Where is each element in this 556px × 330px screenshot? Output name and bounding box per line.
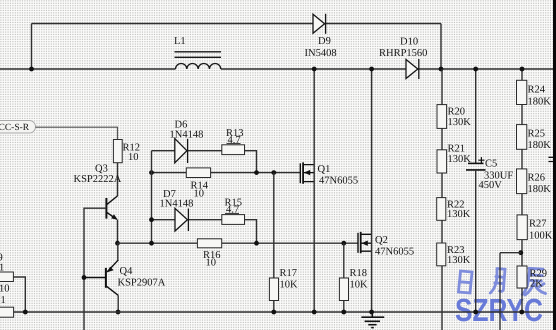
mosfet Q2 47N6055 [358,232,372,253]
svg-text:180K: 180K [528,184,552,195]
svg-text:1N4148: 1N4148 [170,130,204,141]
resistor R27 100K [517,215,527,240]
svg-text:10: 10 [206,258,217,269]
capacitor C5 330UF 450V [475,69,477,163]
wire: Q2 drain/source vertical x=371.6 [371,69,373,312]
node: junction (256.5,243.2) [254,241,259,246]
diode D9 IN5408 [313,14,326,34]
svg-text:CC-S-R: CC-S-R [0,123,30,133]
wire: Q3 base wire and left drop x=84 [84,208,106,330]
wire: pill to R12 [36,127,118,139]
wire: main horizontal rail y=69 [0,68,556,70]
node: junction (314.2,69) [312,67,317,72]
resistor R12 10 [113,140,122,163]
node: junction (522,312) [519,310,524,315]
svg-text:R24: R24 [528,85,546,96]
svg-text:1: 1 [1,295,6,306]
svg-text:10K: 10K [280,280,299,291]
svg-text:Q1: Q1 [318,164,331,175]
transistor Q4 KSP2907A [84,243,118,312]
wire: Q3 emitter down to node [117,220,119,244]
node: junction (256.5,172.6) [254,170,259,175]
diode D7 1N4148 [175,208,188,231]
svg-text:Q3: Q3 [95,164,108,175]
resistor R20 130K [437,105,447,129]
wire: D7/R15 branch y=219.7 [152,220,257,244]
svg-text:47N6055: 47N6055 [375,247,414,258]
resistor chain R24-R27,R29 x=522 [521,69,523,312]
svg-text:C5: C5 [485,159,497,170]
svg-text:KSP2222A: KSP2222A [74,174,122,185]
svg-text:D10: D10 [400,37,418,48]
resistor R13 4.7 [222,145,245,155]
resistor R22 130K [437,198,446,221]
wire: Q1 drain/source vertical x=314.2 [313,69,315,312]
svg-text:SZRYC: SZRYC [455,292,543,328]
wire: bottom rail y=312 [14,311,556,313]
svg-text:130K: 130K [447,255,471,266]
black border strip right edge [553,0,556,330]
wire: R12 to Q3 collector [117,163,119,197]
svg-text:IN5408: IN5408 [305,48,337,59]
svg-text:R20: R20 [448,107,466,118]
resistor R14 10 [186,168,210,178]
node: junction (475.7,69) [473,67,478,72]
node: junction (371.6,69) [369,67,374,72]
svg-text:10K: 10K [350,280,369,291]
terminal pill CC-S-R [0,121,36,134]
node: junction (84,277.5) [82,275,87,280]
node: junction (441,69) [439,67,444,72]
resistor R10 0.1 (left edge) [0,307,14,317]
wire: D6/R13 top branch y=150.7 [152,151,257,173]
svg-text:4.7: 4.7 [228,135,241,146]
wire: R16 / Q2 gate branch y=243.2 [118,242,359,244]
svg-text:D9: D9 [318,36,331,47]
wire: gate branch y=172.6 (R14 row) [152,172,301,174]
svg-text:10: 10 [194,189,205,200]
resistor R17 10K [273,173,275,278]
node: junction (117.5,243.2) [115,241,120,246]
node: junction (151.5,172.6) [149,170,154,175]
svg-text:4.7: 4.7 [226,205,239,216]
svg-text:RHRP1560: RHRP1560 [379,48,427,59]
svg-text:450V: 450V [479,180,503,191]
svg-text:Q2: Q2 [375,235,388,246]
svg-text:R26: R26 [528,173,546,184]
node: junction (314.2,312) [312,310,317,315]
svg-text:1N4148: 1N4148 [160,199,194,210]
node: junction (151.5,243.2) [149,241,154,246]
svg-text:2K: 2K [530,279,543,290]
node: junction (31.5,69) [29,67,34,72]
svg-text:10: 10 [0,284,10,295]
resistor R25 180K [517,125,527,150]
svg-text:R17: R17 [280,268,298,279]
svg-text:R21: R21 [448,144,466,155]
wire: left riser x=31.5 [31,24,33,70]
node: junction (371.6,312) [369,310,374,315]
wire: left vertical x=151.5 [151,151,153,244]
watermark 日月辰 SZRYC [455,268,546,328]
svg-text:180K: 180K [528,140,552,151]
node: junction (151.5,219.7) [149,217,154,222]
resistor R16 10 [197,239,221,248]
resistor R21 130K [437,150,447,173]
node: junction (343.8,312) [341,310,346,315]
svg-text:180K: 180K [528,97,552,108]
svg-text:47N6055: 47N6055 [319,176,358,187]
wire: stub to x=500 output [500,253,521,330]
mosfet Q1 47N6055 [300,162,314,183]
wire: top rail y=23.5 [32,23,442,25]
svg-text:100K: 100K [529,231,553,242]
node: junction (273.8,172.6) [271,170,276,175]
resistor chain R20 R21 R22 R23 x=442 [441,69,443,330]
resistor R9 0.1 (left edge) [0,272,13,282]
svg-text:Q4: Q4 [120,266,134,277]
capacitor plates at right edge [549,157,554,161]
resistor R18 10K [343,243,345,278]
node: junction (118,312) [116,310,121,315]
svg-text:R27: R27 [529,219,547,230]
svg-text:KSP2907A: KSP2907A [118,278,166,289]
svg-text:R25: R25 [528,129,546,140]
wire: right riser x=441 [440,24,442,70]
node: junction (520.6,252.7) [518,250,523,255]
node: junction (274,312) [271,310,276,315]
diode D6 1N4148 [175,139,188,163]
svg-text:130K: 130K [448,154,472,165]
svg-text:1: 1 [0,263,4,274]
transistor Q3 KSP2222A [106,196,117,220]
resistor R15 4.7 [222,215,245,225]
node: junction (522,69) [520,67,525,72]
node: junction (25.3,312) [23,310,28,315]
resistor R23 130K [437,243,446,266]
svg-text:R18: R18 [350,268,368,279]
inductor L1 [175,52,222,69]
resistor R29 2K [517,266,527,288]
ground symbol [361,312,384,328]
svg-text:L1: L1 [174,36,186,47]
resistor R24 180K [517,80,527,104]
wire: R9 to bottom node [13,277,25,312]
svg-text:130K: 130K [448,117,472,128]
node: junction (475.7,312) [473,310,478,315]
node: junction (343.8,243.2) [341,241,346,246]
resistor R26 180K [517,169,527,194]
svg-text:10: 10 [128,152,139,163]
svg-text:130K: 130K [447,209,471,220]
diode D10 RHRP1560 [406,59,419,79]
